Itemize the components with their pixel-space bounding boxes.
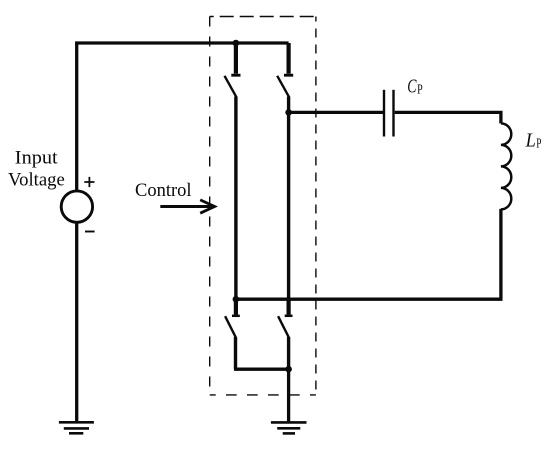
switch S4 (bottom right): [278, 299, 292, 337]
wire: source top lead up and along top bus to right branch: [77, 43, 289, 191]
svg-text:Control: Control: [135, 180, 192, 201]
wire: capacitor right plate to inductor top corner: [395, 112, 501, 123]
svg-text:C: C: [407, 76, 417, 97]
svg-text:Input: Input: [15, 148, 59, 169]
wire: S2 blade down right branch to S4: [287, 97, 290, 311]
wire: right branch to capacitor left plate: [289, 111, 384, 114]
svg-text:L: L: [525, 130, 536, 151]
switch S3 (bottom left): [225, 299, 240, 337]
junction: bottom connector / ground stub: [285, 366, 292, 373]
ground (right): [271, 422, 307, 433]
wire: bottom connector between S3 and S4: [234, 368, 289, 371]
switch S1 (top left): [225, 43, 241, 97]
wire: source bottom lead to ground: [75, 222, 78, 421]
svg-text:P: P: [536, 135, 541, 150]
capacitor CP: [384, 90, 394, 137]
junction: capacitor tap on right branch: [285, 109, 292, 116]
wire: S1 blade to mid bus: [234, 97, 237, 300]
wire: S4 blade to bottom connector: [287, 337, 290, 369]
wire: S3 blade to bottom connector: [234, 337, 237, 369]
wire: inductor bottom down and along mid bus to left branch: [234, 209, 501, 299]
junction: top bus / S1 branch: [233, 40, 240, 47]
dashed box: switch network boundary: [210, 17, 316, 395]
control arrow: [160, 200, 214, 213]
svg-text:Voltage: Voltage: [8, 170, 65, 191]
svg-text:P: P: [417, 82, 423, 97]
voltage source VIN: [61, 177, 94, 232]
inductor LP: [501, 123, 511, 209]
wire: ground stub from bridge: [287, 369, 290, 421]
switch S2 (top right): [277, 43, 293, 97]
ground (left): [59, 422, 94, 433]
junction: mid bus / left branch: [233, 296, 240, 303]
